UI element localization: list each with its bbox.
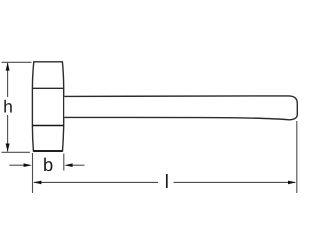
b left arrowhead <box>24 163 32 167</box>
h arrow up <box>6 62 10 70</box>
b right arrow shaft <box>72 164 85 166</box>
l dimension line left segment <box>34 181 158 183</box>
b right arrowhead <box>64 163 72 167</box>
head face line upper <box>32 87 63 89</box>
label h <box>4 100 11 113</box>
l dimension line right segment <box>174 181 296 183</box>
b dimension right extension line <box>63 154 65 171</box>
h dimension top extension line <box>2 61 32 63</box>
h dimension bottom extension line <box>2 151 30 153</box>
l right arrowhead <box>288 181 296 185</box>
b dimension left extension line <box>32 153 34 193</box>
l left arrowhead <box>33 181 41 185</box>
hammer handle <box>64 96 297 120</box>
head bottom edge emphasis <box>33 150 62 152</box>
h dimension line upper segment <box>7 63 9 97</box>
l dimension right extension line <box>296 121 298 193</box>
label b <box>44 158 52 171</box>
head face line lower <box>32 125 63 127</box>
label l <box>166 174 168 188</box>
h dimension line lower segment <box>7 115 9 152</box>
h arrow down <box>6 144 10 152</box>
hammer head outline <box>32 62 63 151</box>
b left arrow shaft <box>9 164 24 166</box>
